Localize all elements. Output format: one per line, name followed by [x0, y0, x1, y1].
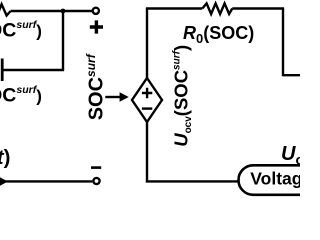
negative terminal circle — [93, 178, 99, 184]
svg-text:SOCsurf: SOCsurf — [84, 53, 108, 120]
svg-text:C1(SOCsurf): C1(SOCsurf) — [0, 84, 42, 109]
wire top-left horizontal — [11, 10, 93, 12]
wire vertical R1/C1 right joint — [62, 10, 64, 70]
wire top-right horizontal right part — [232, 7, 284, 9]
positive terminal circle — [93, 8, 99, 14]
svg-text:R1(SOCsurf): R1(SOCsurf) — [0, 19, 42, 44]
svg-text:Uout: Uout — [281, 143, 300, 168]
current arrowhead bottom-left — [0, 177, 8, 187]
svg-text:R0(SOC): R0(SOC) — [183, 23, 254, 46]
wire diamond top vertical — [146, 9, 148, 80]
wire C1 branch horizontal — [3, 69, 64, 71]
block Voltage source (pill, cropped at right edge) — [239, 165, 320, 195]
minus sign at terminal — [91, 166, 101, 169]
svg-text:Uocv(SOCsurf): Uocv(SOCsurf) — [171, 45, 195, 147]
resistor R1 (partially cropped at left edge) — [0, 4, 11, 15]
control signal arrowhead — [120, 92, 129, 101]
wire exiting right edge — [283, 74, 300, 76]
node junction dot — [61, 9, 66, 14]
svg-text:Voltage sour: Voltage sour — [250, 169, 300, 189]
wire right vertical — [282, 9, 284, 77]
svg-text:i(t): i(t) — [0, 146, 10, 169]
control signal arrow line — [105, 96, 120, 98]
minus sign inside diamond — [142, 107, 152, 109]
plus sign at terminal — [90, 20, 103, 33]
capacitor C1 right plate (cropped at left edge) — [1, 59, 4, 82]
wire diamond bottom vertical — [146, 122, 148, 183]
wire bottom horizontal to block — [146, 180, 240, 182]
wire bottom-left horizontal — [4, 180, 92, 182]
resistor R0 zigzag — [202, 3, 232, 14]
dependent source U_ocv diamond — [132, 78, 162, 122]
plus sign inside diamond — [142, 88, 152, 98]
wire top-right horizontal left part — [146, 7, 202, 9]
